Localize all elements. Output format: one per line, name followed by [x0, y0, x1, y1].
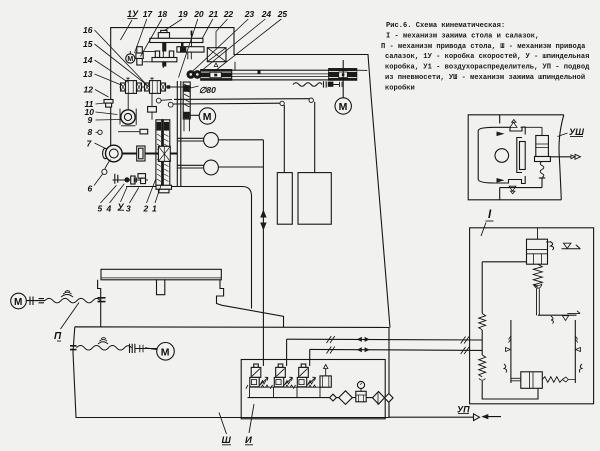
box I stem [537, 228, 539, 239]
leaders from top labels [135, 19, 147, 53]
cylinder rect 1 [277, 173, 292, 225]
svg-text:9: 9 [88, 115, 93, 125]
clutch shaft (items 20-21) [177, 31, 204, 60]
svg-text:из пневмосети, УШ - механизм з: из пневмосети, УШ - механизм зажима шпин… [385, 73, 585, 82]
top cylinder ground marks [546, 241, 551, 243]
gear cluster A [121, 78, 142, 94]
vertical pneumatic line x=263.5 with double arrows [262, 140, 264, 366]
caption text [381, 22, 590, 92]
top cylinder spring [533, 264, 542, 287]
rail left block [201, 70, 232, 81]
svg-text:2: 2 [143, 204, 149, 214]
svg-text:20: 20 [193, 9, 204, 19]
svg-text:1У: 1У [127, 9, 139, 19]
bed outline [73, 327, 389, 418]
gauge [357, 381, 364, 388]
big diamond 1 [339, 391, 353, 405]
valve sub-base comb [250, 387, 332, 398]
labels III and VI at bottom [222, 435, 232, 446]
left vertical pipe with flex sections [481, 262, 483, 314]
clutch box with X (item 23) [207, 48, 226, 62]
svg-text:I - механизм зажима стола и са: I - механизм зажима стола и салазок, [386, 32, 539, 40]
svg-text:21: 21 [208, 9, 219, 19]
svg-text:M: M [127, 56, 133, 63]
svg-text:∅80: ∅80 [199, 85, 216, 95]
svg-text:3: 3 [126, 204, 131, 214]
gearbox bottom edge to rounded corner and column edge [126, 187, 252, 309]
solenoid valve 2 [270, 364, 293, 389]
worm drive (items 9-10) [121, 110, 135, 124]
motor M spindle drive (207,116) [190, 114, 199, 116]
saddle outline left [98, 280, 101, 328]
svg-text:13: 13 [83, 69, 93, 79]
VIII output arrow [550, 156, 575, 158]
svg-text:Рис.6. Схема кинематическая:: Рис.6. Схема кинематическая: [386, 22, 505, 30]
detail box VIII outline [468, 115, 564, 200]
twin gears at rail end (items 24-25) [187, 71, 195, 79]
spindle bar (O80) [183, 82, 190, 119]
VII supply line [389, 416, 474, 418]
clamp rails verticals in box I [510, 320, 512, 383]
svg-text:16: 16 [83, 25, 93, 35]
bottom numerals [98, 202, 158, 214]
line B to box I [310, 349, 483, 350]
svg-text:17: 17 [143, 9, 154, 19]
svg-text:15: 15 [83, 39, 93, 49]
svg-text:14: 14 [83, 55, 93, 65]
svg-text:18: 18 [158, 9, 168, 19]
pneumatic line L2 [168, 102, 173, 107]
spindle quill [156, 119, 172, 193]
svg-text:салазок, 1У - коробка скоросте: салазок, 1У - коробка скоростей, У - шпи… [385, 52, 589, 61]
small circle item 8 target [98, 130, 102, 134]
manifold line [248, 397, 386, 399]
rod [537, 288, 540, 315]
O80 label [199, 85, 216, 95]
svg-text:M: M [161, 346, 170, 358]
pneumatic line L1 with pivot circles [161, 99, 172, 102]
clamped rail bar [520, 142, 526, 170]
motor M1 with gear stack [126, 54, 135, 63]
svg-text:4: 4 [106, 204, 112, 214]
big gear item 2 [158, 146, 170, 161]
svg-text:25: 25 [277, 9, 288, 19]
svg-text:24: 24 [261, 9, 272, 19]
svg-text:22: 22 [223, 9, 234, 19]
diamond 2 with drain line [373, 392, 385, 405]
VIII piston unit [521, 127, 543, 135]
svg-text:П: П [54, 331, 62, 342]
aux shaft below (items 3-5) [113, 179, 149, 181]
box I bottom cylinder [521, 372, 543, 389]
top numerals [143, 9, 288, 19]
line A to box I [287, 338, 483, 341]
svg-text:M: M [203, 111, 212, 123]
rail right block [329, 69, 357, 81]
gear shaft y=87 [120, 86, 192, 88]
diamond 3 on bed edge [385, 394, 394, 403]
top shaft assembly (item 19) [150, 30, 203, 68]
leaders from left labels [95, 30, 147, 84]
coupling 1 [178, 138, 205, 141]
clamp circle [495, 149, 509, 163]
leaders from bottom labels [101, 185, 117, 203]
cylinder rect 2 [298, 173, 331, 225]
clamp C profile [478, 127, 525, 184]
saddle outline right [217, 280, 284, 328]
table drive nut tab [157, 279, 165, 295]
svg-text:5: 5 [98, 204, 103, 214]
main horizontal shaft [104, 153, 177, 155]
gear cluster B [145, 78, 166, 94]
svg-text:коробка, У1 - воздухораспредел: коробка, У1 - воздухораспределитель, УП … [385, 63, 590, 72]
pressure regulator with up arrow [320, 376, 331, 387]
machine outline: gearbox step + right slant edge [111, 28, 390, 328]
svg-text:23: 23 [244, 9, 255, 19]
rail assembly [201, 69, 357, 81]
pneumatic hose to rail (wavy) [293, 83, 322, 87]
svg-text:M: M [339, 101, 348, 113]
box I top cylinder [527, 239, 548, 264]
pipe from left vertical to cylinder [482, 261, 526, 263]
lower ground marks [551, 316, 553, 324]
motor M3 with drive III inside bed [70, 346, 77, 350]
top label IV [127, 9, 139, 19]
motor M2 with drive II [11, 293, 27, 309]
svg-text:УШ: УШ [569, 127, 584, 137]
clutch on left vertical (items 11-12) [104, 100, 113, 104]
motor M top-right with stem [342, 60, 344, 98]
coupling 2 [178, 165, 205, 168]
handwheel bevel [103, 148, 108, 158]
head right edge double line [177, 81, 181, 187]
label II [54, 331, 62, 342]
svg-text:19: 19 [178, 9, 188, 19]
left numerals [83, 25, 94, 194]
svg-text:6: 6 [88, 184, 93, 194]
svg-text:1: 1 [152, 204, 157, 214]
svg-text:M: M [14, 297, 22, 308]
detail box I outline [470, 228, 594, 404]
pneumatic block VI box [241, 360, 385, 419]
bottom cylinder spring right [542, 377, 562, 383]
valve units in VI [246, 364, 316, 389]
svg-text:12: 12 [84, 85, 94, 95]
table [101, 269, 221, 280]
vertical shafts below gears [127, 93, 129, 110]
svg-text:коробки: коробки [385, 83, 415, 92]
VIII label [569, 127, 584, 137]
label I with leader [488, 209, 492, 221]
svg-text:П - механизм привода стола, Ш: П - механизм привода стола, Ш - механизм… [381, 43, 586, 51]
svg-text:8: 8 [88, 127, 93, 137]
rail body [232, 70, 329, 80]
gear block on main shaft [137, 146, 145, 161]
svg-text:УП: УП [457, 405, 470, 415]
small diamond [330, 394, 337, 401]
solenoid valve 1 [246, 364, 269, 389]
VIII clamp body [499, 115, 501, 200]
solenoid valve 3 [293, 364, 316, 389]
